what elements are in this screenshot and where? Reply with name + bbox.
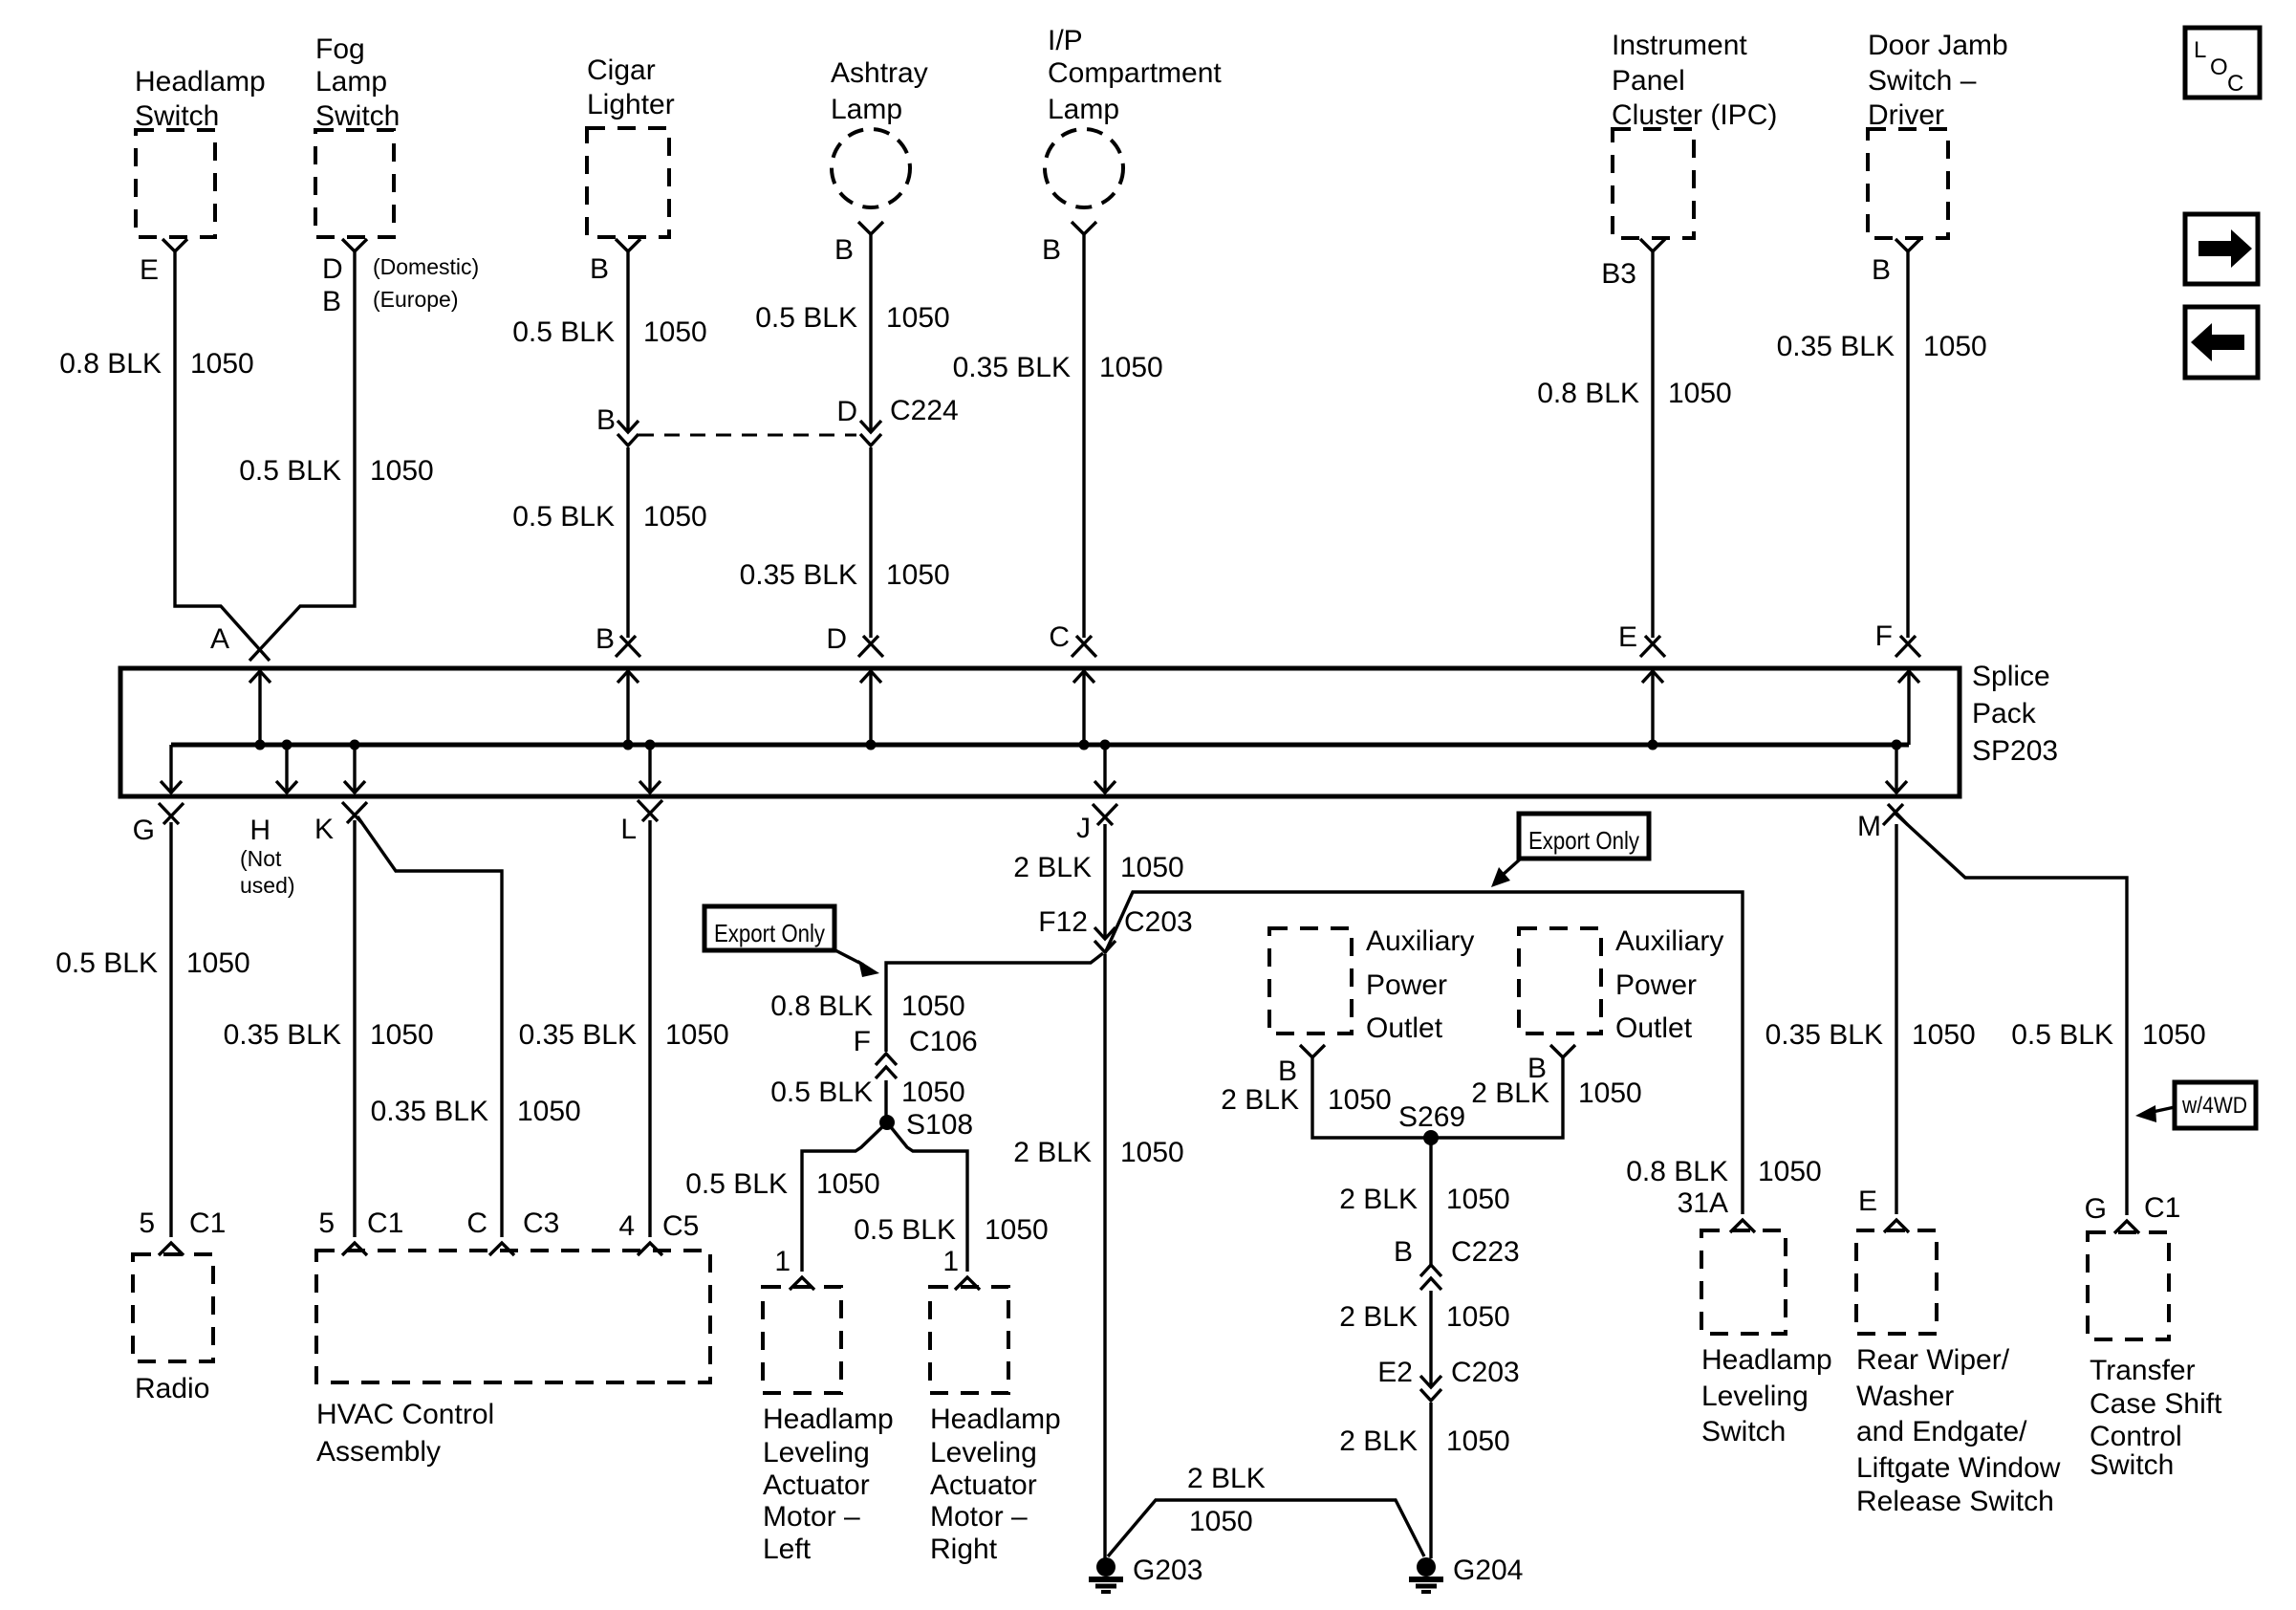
svg-text:Pack: Pack — [1972, 698, 2037, 729]
wire 2 BLK 1050 from S269 to connector C223 — [1429, 1138, 1432, 1265]
svg-text:M: M — [1857, 811, 1881, 842]
svg-text:1050: 1050 — [1189, 1506, 1253, 1537]
svg-text:1050: 1050 — [1446, 1301, 1510, 1333]
svg-text:Assembly: Assembly — [316, 1436, 441, 1468]
wire 0.8 BLK 1050 export branch from J to C106 — [886, 953, 1103, 1052]
svg-text:1050: 1050 — [816, 1168, 880, 1200]
svg-text:E: E — [1858, 1186, 1877, 1217]
svg-text:Transfer: Transfer — [2090, 1355, 2196, 1386]
svg-text:Switch: Switch — [315, 100, 400, 132]
svg-text:0.35 BLK: 0.35 BLK — [224, 1019, 341, 1051]
splice pin J exit — [1100, 740, 1111, 751]
svg-text:G: G — [2085, 1193, 2107, 1225]
svg-text:1050: 1050 — [2142, 1019, 2206, 1051]
svg-text:(Europe): (Europe) — [373, 287, 458, 312]
svg-text:B: B — [596, 623, 615, 655]
svg-text:B: B — [834, 234, 854, 266]
component Headlamp Leveling Actuator Motor - Left — [763, 1287, 841, 1393]
pin E of Headlamp Switch — [162, 239, 187, 251]
pin B of left Auxiliary Power Outlet — [1300, 1045, 1325, 1057]
svg-text:1050: 1050 — [370, 455, 434, 487]
svg-text:1050: 1050 — [643, 316, 707, 348]
wire 0.35 BLK 1050 from Door Jamb Switch to splice F — [1906, 251, 1909, 638]
svg-text:D: D — [322, 253, 343, 285]
splice pin E entry — [1640, 636, 1665, 657]
pin 4 C5 of HVAC Control Assembly — [638, 1243, 662, 1255]
ground G203 — [1089, 1557, 1123, 1592]
svg-text:G204: G204 — [1453, 1555, 1523, 1586]
splice pin C entry — [1072, 636, 1096, 657]
splice pin G exit — [169, 745, 172, 794]
svg-text:0.35 BLK: 0.35 BLK — [953, 352, 1071, 383]
svg-text:C203: C203 — [1124, 906, 1193, 938]
svg-text:1050: 1050 — [517, 1096, 581, 1127]
svg-text:2 BLK: 2 BLK — [1339, 1184, 1418, 1215]
svg-text:1050: 1050 — [665, 1019, 729, 1051]
svg-text:used): used) — [240, 873, 295, 898]
connector C203 pin E2 — [1420, 1376, 1441, 1401]
svg-text:B: B — [596, 404, 616, 436]
svg-text:w/4WD: w/4WD — [2181, 1093, 2247, 1119]
svg-text:F: F — [1875, 620, 1893, 652]
wire 0.5 BLK 1050 from splice G to Radio — [169, 822, 172, 1237]
svg-text:0.8 BLK: 0.8 BLK — [770, 990, 873, 1022]
wire 0.5 BLK 1050 from S108 to left actuator — [802, 1122, 887, 1272]
svg-text:and Endgate/: and Endgate/ — [1856, 1416, 2027, 1447]
svg-text:Rear Wiper/: Rear Wiper/ — [1856, 1344, 2010, 1376]
svg-text:1050: 1050 — [1328, 1084, 1392, 1116]
ground G204 — [1409, 1557, 1443, 1592]
connector C106 pin F — [876, 1054, 897, 1078]
splice pack SP203 box — [120, 668, 1960, 796]
wire 0.5 BLK 1050 from S108 to right actuator — [887, 1122, 967, 1272]
svg-text:1050: 1050 — [1923, 331, 1987, 362]
wire 0.35 BLK 1050 from splice L to HVAC pin 4 — [648, 820, 651, 1237]
arrow from Export Only note to wire — [834, 949, 863, 965]
component HVAC Control Assembly — [316, 1251, 710, 1382]
svg-text:4: 4 — [618, 1210, 635, 1242]
svg-text:Switch: Switch — [135, 100, 219, 132]
svg-text:0.8 BLK: 0.8 BLK — [1537, 378, 1639, 409]
svg-text:Driver: Driver — [1868, 99, 1944, 131]
pin B of I/P Compartment Lamp — [1072, 222, 1096, 234]
svg-text:Door Jamb: Door Jamb — [1868, 30, 2008, 61]
legend right-arrow box — [2185, 214, 2258, 284]
svg-text:C5: C5 — [662, 1210, 699, 1242]
svg-text:E2: E2 — [1377, 1357, 1413, 1388]
note box Export Only (right) — [1519, 814, 1649, 859]
svg-text:HVAC Control: HVAC Control — [316, 1399, 494, 1430]
svg-text:2 BLK: 2 BLK — [1013, 852, 1092, 883]
wire 0.8 BLK 1050 from Headlamp Switch E to splice A — [175, 251, 270, 661]
svg-text:1050: 1050 — [1099, 352, 1163, 383]
svg-text:B: B — [590, 253, 609, 285]
svg-text:B: B — [1394, 1236, 1413, 1268]
dashed connector line C224 — [639, 434, 856, 437]
svg-text:Washer: Washer — [1856, 1381, 1954, 1412]
svg-text:0.5 BLK: 0.5 BLK — [239, 455, 341, 487]
svg-text:1050: 1050 — [985, 1214, 1049, 1246]
svg-text:0.35 BLK: 0.35 BLK — [1777, 331, 1895, 362]
svg-text:K: K — [314, 814, 334, 845]
svg-text:1050: 1050 — [186, 947, 250, 979]
svg-text:Motor –: Motor – — [763, 1501, 860, 1533]
pin B of right Auxiliary Power Outlet — [1550, 1045, 1575, 1057]
svg-text:Lamp: Lamp — [831, 94, 902, 125]
arrow from w/4WD note to wire — [2153, 1107, 2175, 1112]
svg-text:D: D — [826, 623, 847, 655]
svg-text:Auxiliary: Auxiliary — [1366, 925, 1474, 957]
svg-text:L: L — [2194, 37, 2206, 63]
wire 0.8 BLK 1050 from IPC B3 to splice E — [1651, 251, 1654, 638]
wire 0.5 BLK 1050 from C224 to splice B — [626, 447, 629, 638]
svg-text:0.5 BLK: 0.5 BLK — [685, 1168, 788, 1200]
svg-text:H: H — [249, 815, 271, 846]
svg-text:Lamp: Lamp — [315, 66, 387, 98]
connector C224 pin B (cigar side) — [617, 421, 639, 446]
pin B of Door Jamb Switch — [1895, 239, 1920, 251]
svg-text:0.5 BLK: 0.5 BLK — [512, 316, 615, 348]
svg-text:Right: Right — [930, 1534, 998, 1565]
component Rear Wiper/Washer and Endgate/Liftgate Window Release Switch — [1856, 1230, 1937, 1334]
splice pin L exit — [645, 740, 656, 751]
svg-text:1050: 1050 — [901, 990, 965, 1022]
wire 2 BLK 1050 from left outlet to S269 — [1312, 1057, 1424, 1138]
svg-text:Cluster (IPC): Cluster (IPC) — [1612, 99, 1777, 131]
component Headlamp Leveling Switch — [1701, 1230, 1786, 1334]
wire 0.35 BLK 1050 from I/P Compartment Lamp to splice C — [1082, 234, 1085, 638]
wire 2 BLK 1050 from C203 to ground G204 — [1429, 1403, 1432, 1558]
svg-text:C223: C223 — [1451, 1236, 1520, 1268]
svg-text:1: 1 — [774, 1246, 791, 1277]
svg-text:1050: 1050 — [1668, 378, 1732, 409]
svg-text:2 BLK: 2 BLK — [1471, 1077, 1549, 1109]
connector C223 pin B — [1420, 1265, 1441, 1290]
svg-text:0.8 BLK: 0.8 BLK — [1626, 1156, 1728, 1187]
svg-text:Leveling: Leveling — [763, 1437, 870, 1469]
svg-text:0.35 BLK: 0.35 BLK — [1765, 1019, 1883, 1051]
splice pin F entry — [1895, 636, 1920, 657]
svg-text:A: A — [210, 623, 229, 655]
svg-text:B: B — [1042, 234, 1061, 266]
wire 0.5 BLK 1050 from Fog Lamp Switch to splice A — [249, 251, 355, 661]
svg-text:J: J — [1076, 813, 1091, 844]
svg-text:1050: 1050 — [886, 302, 950, 334]
svg-text:0.5 BLK: 0.5 BLK — [55, 947, 158, 979]
connector C224 pin D (ashtray side) — [860, 421, 881, 446]
svg-text:0.35 BLK: 0.35 BLK — [519, 1019, 637, 1051]
svg-text:Motor –: Motor – — [930, 1501, 1028, 1533]
svg-text:Ashtray: Ashtray — [831, 57, 928, 89]
svg-text:0.5 BLK: 0.5 BLK — [755, 302, 857, 334]
svg-text:0.35 BLK: 0.35 BLK — [371, 1096, 488, 1127]
legend LOC box — [2185, 28, 2260, 98]
svg-text:Auxiliary: Auxiliary — [1615, 925, 1723, 957]
svg-text:1050: 1050 — [901, 1077, 965, 1108]
wire 0.35 BLK 1050 from splice M to Rear Wiper switch — [1895, 824, 1897, 1214]
svg-text:Splice: Splice — [1972, 661, 2050, 692]
svg-text:Control: Control — [2090, 1421, 2182, 1452]
svg-text:E: E — [1618, 621, 1637, 653]
svg-text:SP203: SP203 — [1972, 735, 2058, 767]
svg-text:Power: Power — [1366, 969, 1447, 1001]
pin C C3 of HVAC Control Assembly — [489, 1243, 514, 1255]
svg-text:Lamp: Lamp — [1048, 94, 1119, 125]
svg-text:C: C — [466, 1207, 487, 1239]
svg-text:0.5 BLK: 0.5 BLK — [770, 1077, 873, 1108]
svg-text:O: O — [2210, 54, 2228, 80]
svg-text:C1: C1 — [189, 1207, 226, 1239]
wire 0.35 BLK 1050 from splice K to HVAC pin 5 — [353, 820, 356, 1237]
svg-text:C1: C1 — [2144, 1192, 2180, 1224]
wire 0.5 BLK 1050 from Cigar Lighter to connector C224 — [626, 251, 629, 432]
svg-text:5: 5 — [139, 1207, 155, 1239]
component Auxiliary Power Outlet (left) — [1269, 928, 1352, 1033]
svg-text:C: C — [1049, 621, 1070, 653]
svg-text:1050: 1050 — [1120, 1137, 1184, 1168]
pin 31A of Headlamp Leveling Switch — [1730, 1220, 1755, 1232]
svg-text:Outlet: Outlet — [1615, 1012, 1693, 1044]
splice pin H exit (not used) — [282, 740, 292, 751]
svg-text:1050: 1050 — [1120, 852, 1184, 883]
svg-text:Export Only: Export Only — [1528, 826, 1639, 855]
component Headlamp Leveling Actuator Motor - Right — [930, 1287, 1008, 1393]
wire 2 BLK 1050 link between G203 and G204 — [1108, 1500, 1424, 1556]
svg-text:2 BLK: 2 BLK — [1187, 1463, 1266, 1494]
svg-text:1050: 1050 — [1446, 1425, 1510, 1457]
splice pin K exit — [350, 740, 360, 751]
splice pack internal bus — [171, 743, 1909, 748]
pin G C1 of Transfer Case Shift Control Switch — [2114, 1221, 2139, 1233]
wire 0.5 BLK 1050 from splice M to Transfer Case switch — [1895, 814, 2127, 1215]
svg-text:1: 1 — [942, 1246, 959, 1277]
splice pin M exit — [1892, 740, 1902, 751]
svg-text:Liftgate Window: Liftgate Window — [1856, 1452, 2061, 1484]
svg-text:0.5 BLK: 0.5 BLK — [512, 501, 615, 533]
wire 2 BLK 1050 from C223 to C203 — [1429, 1291, 1432, 1387]
svg-text:Compartment: Compartment — [1048, 57, 1222, 89]
svg-text:1050: 1050 — [1446, 1184, 1510, 1215]
svg-text:Leveling: Leveling — [930, 1437, 1037, 1469]
svg-text:2 BLK: 2 BLK — [1221, 1084, 1299, 1116]
svg-text:(Domestic): (Domestic) — [373, 254, 479, 279]
svg-text:C1: C1 — [367, 1207, 403, 1239]
svg-text:0.5 BLK: 0.5 BLK — [854, 1214, 956, 1246]
svg-text:S108: S108 — [906, 1109, 973, 1141]
svg-text:5: 5 — [318, 1207, 335, 1239]
wire 0.35 BLK 1050 branch from splice K to HVAC pin C — [357, 816, 502, 1237]
svg-text:1050: 1050 — [1912, 1019, 1976, 1051]
svg-text:1050: 1050 — [370, 1019, 434, 1051]
svg-text:1050: 1050 — [1758, 1156, 1822, 1187]
svg-text:D: D — [836, 396, 857, 427]
svg-text:1050: 1050 — [886, 559, 950, 591]
svg-text:Case Shift: Case Shift — [2090, 1388, 2222, 1420]
svg-text:Switch: Switch — [2090, 1449, 2174, 1481]
svg-text:I/P: I/P — [1048, 25, 1083, 56]
splice pin D entry — [858, 636, 883, 657]
wire 2 BLK 1050 from splice J to connector C203 F12 — [1103, 824, 1106, 939]
component Auxiliary Power Outlet (right) — [1519, 928, 1601, 1033]
svg-text:2 BLK: 2 BLK — [1339, 1301, 1418, 1333]
svg-text:Radio: Radio — [135, 1373, 209, 1404]
svg-text:Power: Power — [1615, 969, 1697, 1001]
svg-text:G203: G203 — [1133, 1555, 1202, 1586]
wire 0.35 BLK 1050 from C224 to splice D — [869, 447, 872, 638]
svg-text:Instrument: Instrument — [1612, 30, 1747, 61]
svg-text:Headlamp: Headlamp — [763, 1403, 894, 1435]
svg-text:1050: 1050 — [1578, 1077, 1642, 1109]
wire 0.5 BLK 1050 from C106 to splice S108 — [884, 1080, 887, 1122]
svg-text:Actuator: Actuator — [930, 1469, 1037, 1501]
svg-text:1050: 1050 — [190, 348, 254, 380]
svg-text:Lighter: Lighter — [587, 89, 675, 120]
svg-text:1050: 1050 — [643, 501, 707, 533]
svg-text:Panel: Panel — [1612, 65, 1685, 97]
pin E of Rear Wiper switch — [1884, 1220, 1909, 1232]
svg-text:F: F — [854, 1026, 871, 1057]
legend left-arrow box — [2185, 307, 2258, 378]
pin 1 of Headlamp Leveling Actuator Motor - Left — [790, 1277, 814, 1290]
svg-text:Export Only: Export Only — [714, 919, 825, 947]
note box w/4WD — [2175, 1082, 2256, 1128]
svg-text:Cigar: Cigar — [587, 54, 656, 86]
svg-text:B3: B3 — [1601, 258, 1636, 290]
svg-text:Fog: Fog — [315, 33, 365, 65]
svg-text:B: B — [1278, 1055, 1297, 1087]
splice pin B entry — [616, 636, 640, 657]
pin B3 of IPC — [1640, 239, 1665, 251]
svg-text:31A: 31A — [1678, 1187, 1728, 1219]
arrow from right Export Only note to wire — [1503, 859, 1521, 875]
svg-text:G: G — [133, 815, 155, 846]
wire 0.5 BLK 1050 from Ashtray Lamp to connector C224 — [869, 234, 872, 432]
wire 2 BLK 1050 from right outlet to S269 — [1438, 1057, 1563, 1138]
connector C203 pin F12 — [1094, 927, 1116, 952]
svg-text:C3: C3 — [523, 1207, 559, 1239]
svg-text:L: L — [620, 814, 637, 845]
wire export-only line from J to Headlamp Leveling Switch — [1105, 892, 1743, 1214]
wire 2 BLK 1050 from C203 to ground G203 — [1103, 954, 1106, 1558]
svg-text:Actuator: Actuator — [763, 1469, 870, 1501]
svg-text:Headlamp: Headlamp — [1701, 1344, 1832, 1376]
svg-text:2 BLK: 2 BLK — [1339, 1425, 1418, 1457]
svg-text:Left: Left — [763, 1534, 812, 1565]
pin 5 C1 of HVAC Control Assembly — [342, 1243, 367, 1255]
svg-text:B: B — [1872, 254, 1891, 286]
svg-text:0.8 BLK: 0.8 BLK — [59, 348, 162, 380]
svg-text:C106: C106 — [909, 1026, 978, 1057]
svg-text:C203: C203 — [1451, 1357, 1520, 1388]
svg-text:0.35 BLK: 0.35 BLK — [740, 559, 857, 591]
svg-text:2 BLK: 2 BLK — [1013, 1137, 1092, 1168]
pin B of Cigar Lighter — [616, 239, 640, 251]
svg-text:Switch –: Switch – — [1868, 65, 1977, 97]
svg-text:Headlamp: Headlamp — [135, 66, 266, 98]
svg-text:Outlet: Outlet — [1366, 1012, 1443, 1044]
component Transfer Case Shift Control Switch — [2088, 1232, 2169, 1339]
svg-text:E: E — [140, 254, 159, 286]
svg-text:Headlamp: Headlamp — [930, 1403, 1061, 1435]
svg-text:B: B — [322, 286, 341, 317]
pin 1 of Headlamp Leveling Actuator Motor - Right — [955, 1277, 980, 1290]
svg-text:C: C — [2227, 71, 2243, 97]
svg-text:0.5 BLK: 0.5 BLK — [2011, 1019, 2113, 1051]
splice S269 — [1423, 1130, 1439, 1145]
pin B of Ashtray Lamp — [858, 222, 883, 234]
svg-text:Switch: Switch — [1701, 1416, 1786, 1447]
svg-text:Release Switch: Release Switch — [1856, 1486, 2054, 1517]
svg-text:(Not: (Not — [240, 846, 282, 871]
svg-text:C224: C224 — [890, 395, 959, 426]
pin D/B of Fog Lamp Switch — [342, 239, 367, 251]
component Radio — [133, 1254, 213, 1361]
note box Export Only (left) — [704, 906, 834, 950]
svg-text:Leveling: Leveling — [1701, 1381, 1809, 1412]
svg-text:S269: S269 — [1398, 1101, 1465, 1133]
splice S108 — [879, 1115, 895, 1130]
svg-text:F12: F12 — [1038, 906, 1088, 938]
pin 5 C1 of Radio — [159, 1243, 184, 1255]
